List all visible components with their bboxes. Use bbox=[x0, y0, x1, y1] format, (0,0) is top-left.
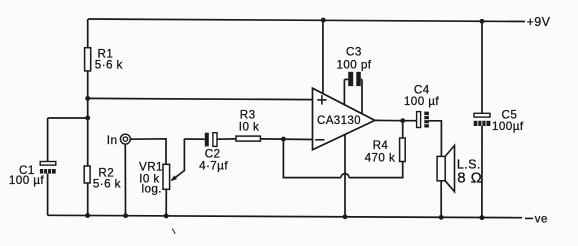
svg-text:+9V: +9V bbox=[527, 15, 551, 29]
svg-text:I0 k: I0 k bbox=[239, 121, 259, 134]
svg-text:100 µf: 100 µf bbox=[404, 95, 439, 108]
svg-text:100 µf: 100 µf bbox=[9, 174, 44, 187]
svg-text:4·7µf: 4·7µf bbox=[199, 160, 228, 173]
svg-text:R4: R4 bbox=[373, 139, 389, 152]
svg-text:100 pf: 100 pf bbox=[337, 58, 372, 71]
svg-text:ve: ve bbox=[535, 213, 548, 225]
svg-text:CA3130: CA3130 bbox=[317, 115, 361, 127]
svg-text:In: In bbox=[107, 133, 118, 147]
svg-text:R3: R3 bbox=[240, 109, 256, 122]
svg-text:470 k: 470 k bbox=[365, 151, 396, 164]
svg-text:5·6 k: 5·6 k bbox=[95, 59, 123, 72]
svg-text:C3: C3 bbox=[346, 46, 362, 59]
svg-text:8 Ω: 8 Ω bbox=[457, 170, 482, 187]
svg-text:5·6 k: 5·6 k bbox=[93, 178, 121, 191]
svg-text:100µf: 100µf bbox=[492, 120, 524, 133]
svg-text:log.: log. bbox=[142, 182, 162, 195]
